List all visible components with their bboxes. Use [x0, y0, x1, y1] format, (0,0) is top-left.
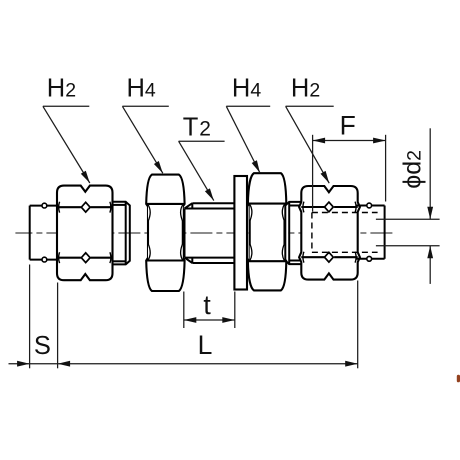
collar C1 (sleeve right of nut N1) [113, 202, 130, 265]
svg-text:H2: H2 [291, 75, 320, 103]
dimension phi d2 [376, 128, 440, 284]
node: nut N2 knurl diamonds [325, 202, 334, 262]
hex nut B2 (H4 right body hex) [248, 173, 286, 290]
centerline [15, 232, 392, 234]
node: right tube grips [367, 203, 372, 208]
dimension S / L [9, 265, 358, 369]
node: nut N1 knurl diamonds [81, 202, 90, 262]
svg-text:L: L [198, 330, 213, 360]
red edge artifact [457, 375, 460, 383]
dimension t [184, 292, 235, 329]
wire: hidden inserted tube (dashed) [312, 213, 378, 253]
nut N2 (H2 right knurled nut) [299, 186, 360, 280]
node: nut N1 side chamfer cusps [59, 202, 111, 263]
svg-text:t: t [203, 290, 211, 320]
hex nut B1 (H4 left body hex) [146, 175, 184, 291]
svg-text:H4: H4 [232, 75, 261, 103]
svg-text:T2: T2 [183, 113, 211, 141]
nut N1 (H2 left knurled nut) [57, 186, 113, 281]
node: nut N2 side chamfer cusps [303, 202, 356, 263]
thread T2 section [185, 203, 235, 263]
svg-text:S: S [34, 332, 51, 360]
collar C2 (sleeve left of nut N2) [285, 202, 301, 264]
svg-text:F: F [340, 110, 356, 140]
svg-text:H2: H2 [47, 75, 76, 103]
flange plate [234, 176, 247, 290]
svg-text:ϕd2: ϕd2 [398, 150, 426, 189]
svg-text:H4: H4 [127, 75, 156, 103]
wire: right tube solid [357, 206, 385, 259]
wire: left tube [30, 206, 59, 260]
dimension F [313, 135, 386, 212]
node: left tube grips [42, 203, 47, 208]
